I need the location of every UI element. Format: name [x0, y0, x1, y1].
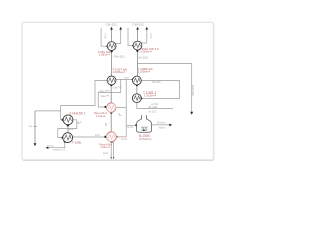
- svg-text:1.0156e+4: 1.0156e+4: [138, 70, 151, 74]
- junction dot H2 bottom: [136, 84, 138, 86]
- wire: E2 bottom out left: [47, 142, 65, 148]
- heat exchanger E1: [63, 115, 73, 125]
- wire: vessel right outlet: [151, 124, 170, 126]
- heat exchanger H3: [132, 94, 141, 103]
- svg-text:T-10BL: T-10BL: [72, 140, 82, 144]
- wire: R1 right to long drop: [116, 107, 126, 109]
- arrow up C1 right riser: [119, 27, 122, 30]
- canvas right shadow: [213, 25, 215, 160]
- wire: loop from link down to R1: [98, 79, 121, 107]
- wire: H2 bottom to H3 top: [136, 85, 138, 94]
- wire: C2 bottom drop to H2: [136, 50, 138, 76]
- wire: H3 bottom out to right: [137, 103, 173, 109]
- svg-text:Gw-??: Gw-??: [113, 85, 122, 89]
- svg-text:1.01e+4: 1.01e+4: [100, 145, 110, 149]
- heat exchanger C2: [133, 41, 142, 50]
- tick on E1 right loop: [77, 123, 80, 125]
- wire: H1 right link to H2: [116, 78, 133, 80]
- wire: left vertical stream down: [34, 111, 36, 144]
- wire: E2 right to R2 left: [72, 136, 105, 138]
- heat exchanger H1: [107, 76, 116, 85]
- junction dot R2 bottom: [110, 141, 112, 143]
- svg-text:w-5: w-5: [95, 133, 100, 137]
- junction dot C2 bottom: [136, 50, 138, 52]
- junction dot R2 left: [104, 136, 106, 138]
- junction dot R1 left: [104, 106, 106, 108]
- tick on left stream: [33, 125, 37, 127]
- svg-text:(0.7bar/m): (0.7bar/m): [139, 137, 152, 141]
- junction dot E1 left: [62, 119, 64, 121]
- svg-text:2.0516e-4: 2.0516e-4: [140, 50, 152, 54]
- wire: long drop from H1-H2 link to vessel inlet: [125, 80, 127, 137]
- junction dot R2 right: [115, 136, 117, 138]
- svg-text:watm: watm: [159, 125, 166, 129]
- svg-text:CW-101: CW-101: [106, 23, 118, 27]
- svg-text:2-HHLSF.1: 2-HHLSF.1: [69, 111, 85, 115]
- wire: C2 left inlet L-riser: [128, 28, 133, 46]
- svg-text:w-4: w-4: [69, 127, 74, 131]
- arrow up C1 top: [110, 27, 113, 30]
- wire: feed from left border line into E1: [35, 110, 61, 112]
- red heat exchanger R2: [106, 132, 116, 142]
- heat exchanger C1: [107, 42, 116, 51]
- svg-text:1.01e+4: 1.01e+4: [96, 114, 106, 118]
- vessel internal nub: [143, 129, 145, 131]
- wire: E1 bottom to E2 top: [67, 124, 69, 132]
- wire: E1 right loop to E2 left: [58, 120, 77, 138]
- svg-text:....: ....: [208, 17, 211, 20]
- junction dot E1 bottom: [67, 124, 70, 127]
- wire: C1 left inlet L-riser: [101, 28, 107, 47]
- svg-text:W-102: W-102: [148, 105, 157, 109]
- svg-text:1.015e+4: 1.015e+4: [144, 93, 157, 97]
- svg-text:CW-102: CW-102: [132, 23, 144, 27]
- arrow up C2 right riser: [145, 27, 148, 30]
- heat exchanger E2: [63, 133, 73, 143]
- svg-text:Gw-??: Gw-??: [101, 94, 110, 98]
- svg-text:w-10: w-10: [127, 125, 133, 129]
- arrow up C2 top: [136, 27, 139, 30]
- wire: C1 bottom drop to H1: [111, 50, 113, 76]
- junction dot H3 right: [140, 97, 142, 99]
- svg-text:w-102: w-102: [149, 109, 157, 113]
- svg-text:17m: 17m: [104, 33, 108, 39]
- svg-text:GW-100: GW-100: [191, 85, 195, 96]
- junction dot H2 left: [132, 78, 134, 80]
- arrow nubs below R2: [110, 157, 114, 159]
- svg-text:17m: 17m: [149, 33, 153, 39]
- junction dot C1 left: [106, 45, 108, 47]
- wire: R2 right to drop bottom: [117, 136, 127, 138]
- tick label mark left of drop: [118, 114, 121, 116]
- arrow right vessel outlet: [169, 124, 172, 127]
- svg-text:Gw-???: Gw-???: [99, 89, 110, 93]
- wire: C2 top outlet riser: [137, 29, 139, 42]
- junction dot vessel inlet: [135, 124, 137, 126]
- junction dot E2 bottom: [64, 141, 66, 143]
- heat exchanger H2: [133, 76, 142, 85]
- svg-text:1.0156e+4: 1.0156e+4: [112, 70, 125, 74]
- svg-text:wwww-12: wwww-12: [53, 148, 66, 152]
- wire: C1 right riser with elbow: [115, 29, 120, 44]
- junction dot E2 left: [62, 137, 64, 139]
- junction dot C2 left: [132, 45, 134, 47]
- svg-text:2.051e-4: 2.051e-4: [99, 53, 110, 57]
- svg-text:w-11: w-11: [121, 137, 127, 141]
- wire: H1 left loop to E1: [61, 80, 108, 119]
- svg-text:1q: 1q: [29, 124, 32, 128]
- svg-text:W-100: W-100: [139, 56, 148, 60]
- wire: C1 top outlet riser: [111, 29, 113, 42]
- svg-text:w-3: w-3: [77, 120, 82, 124]
- wire: R1 bottom to R2 top: [110, 112, 112, 131]
- vessel V1 flash drum: [137, 115, 152, 132]
- canvas bottom shadow: [23, 160, 213, 162]
- wire: H2 right loop to H3: [141, 81, 179, 99]
- junction dot C1 bottom: [110, 50, 112, 52]
- svg-text:w: w: [118, 113, 120, 116]
- wire: stub into vessel left wall: [126, 124, 136, 126]
- svg-text:w-9: w-9: [103, 151, 108, 155]
- arrow down W-100 end: [190, 112, 193, 115]
- junction dot R1 bottom: [110, 111, 112, 113]
- svg-text:uF: uF: [104, 123, 108, 127]
- svg-text:D-trim: D-trim: [157, 120, 166, 124]
- wire: twin drops below R2: [111, 142, 113, 159]
- canvas border: [22, 22, 214, 160]
- svg-text:GW-101: GW-101: [113, 55, 125, 59]
- wire: C2 right riser with elbow: [141, 29, 147, 43]
- wire: branch from C2 drop to right then down (W-100): [137, 63, 191, 112]
- wire: H1 bottom to R1 top: [110, 85, 112, 103]
- junction dot H1 bottom: [110, 84, 112, 86]
- arrow down left stream: [34, 143, 37, 146]
- red heat exchanger R1: [107, 103, 116, 112]
- svg-text:W-101: W-101: [152, 80, 161, 84]
- arrow left E2 product: [46, 146, 49, 149]
- vessel internals: [141, 127, 148, 130]
- svg-text:md: md: [124, 75, 128, 79]
